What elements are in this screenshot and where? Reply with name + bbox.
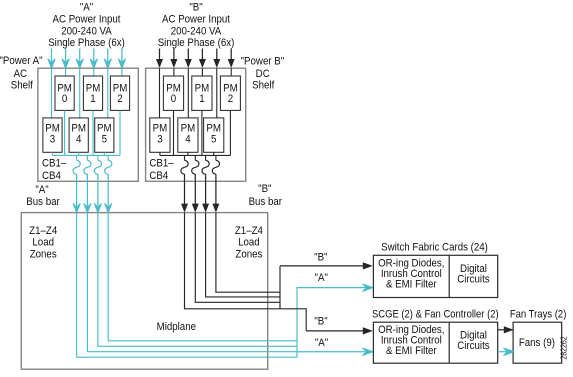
svg-text:Single Phase (6x): Single Phase (6x) [158,38,235,50]
svg-text:& EMI Filter: & EMI Filter [386,279,437,291]
svg-text:AC Power Input: AC Power Input [162,14,230,26]
svg-text:Fan Trays (2): Fan Trays (2) [510,309,567,321]
svg-text:AC Power Input: AC Power Input [53,14,121,26]
svg-text:CB4: CB4 [42,170,61,182]
svg-text:200-240 VA: 200-240 VA [171,26,222,38]
svg-text:Zones: Zones [30,249,57,261]
svg-text:CB1–: CB1– [149,158,173,170]
svg-text:5: 5 [211,134,217,146]
svg-text:4: 4 [185,134,191,146]
svg-text:5: 5 [102,134,108,146]
svg-text:CB1–: CB1– [42,158,66,170]
svg-text:4: 4 [76,134,82,146]
svg-text:"B": "B" [314,252,328,264]
svg-text:3: 3 [50,134,56,146]
svg-text:Bus bar: Bus bar [249,196,283,208]
svg-text:& EMI Filter: & EMI Filter [386,345,437,357]
svg-text:"A": "A" [35,185,49,197]
svg-text:Circuits: Circuits [457,274,489,286]
svg-text:Z1–Z4: Z1–Z4 [235,225,263,237]
svg-text:Load: Load [238,237,260,249]
svg-text:0: 0 [171,94,177,106]
svg-text:Circuits: Circuits [457,340,489,352]
svg-text:Shelf: Shelf [11,80,33,92]
svg-text:200-240 VA: 200-240 VA [61,26,112,38]
svg-text:Zones: Zones [235,249,262,261]
svg-text:"A": "A" [80,2,94,14]
svg-text:Midplane: Midplane [157,321,197,333]
svg-text:"A": "A" [315,272,329,284]
svg-text:3: 3 [157,134,163,146]
svg-text:Fans (9): Fans (9) [519,338,555,350]
svg-text:Load: Load [32,237,54,249]
svg-text:1: 1 [90,94,96,106]
svg-text:"B": "B" [314,316,328,328]
svg-text:"A": "A" [315,337,329,349]
svg-text:"Power B": "Power B" [241,56,285,68]
svg-text:CB4: CB4 [149,170,168,182]
svg-text:Shelf: Shelf [252,80,274,92]
svg-text:1: 1 [199,94,205,106]
svg-text:AC: AC [14,68,28,80]
svg-text:DC: DC [256,69,270,81]
svg-text:282262: 282262 [559,336,569,359]
svg-text:"B": "B" [258,183,272,195]
svg-text:SCGE (2) & Fan Controller (2): SCGE (2) & Fan Controller (2) [372,309,499,321]
svg-text:Bus bar: Bus bar [26,196,60,208]
svg-text:Z1–Z4: Z1–Z4 [29,225,57,237]
svg-text:"Power A": "Power A" [0,55,43,67]
svg-text:2: 2 [228,94,234,106]
svg-text:"B": "B" [189,2,203,14]
svg-text:0: 0 [62,94,68,106]
svg-text:Switch Fabric Cards (24): Switch Fabric Cards (24) [381,242,488,254]
svg-text:Single Phase (6x): Single Phase (6x) [48,38,125,50]
svg-text:2: 2 [117,94,123,106]
